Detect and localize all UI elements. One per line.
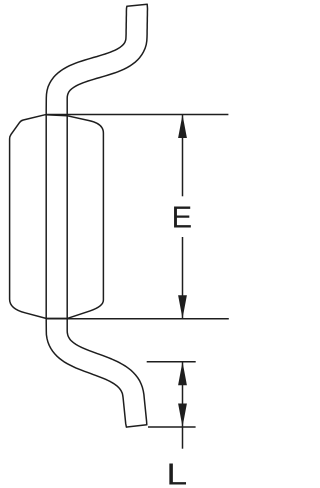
- svg-text:L: L: [166, 458, 187, 488]
- svg-text:E: E: [172, 200, 193, 235]
